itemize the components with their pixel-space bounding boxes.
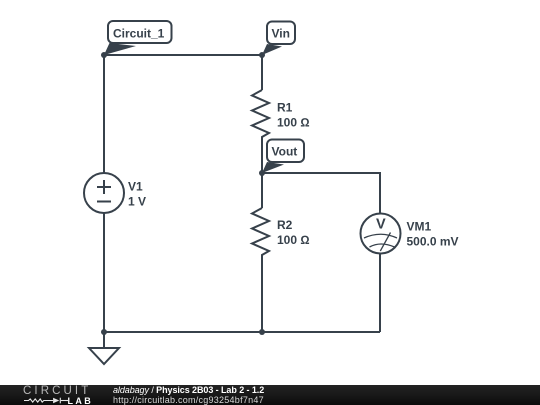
- svg-text:R2: R2: [277, 218, 293, 232]
- svg-text:R1: R1: [277, 101, 293, 115]
- svg-text:VM1: VM1: [407, 220, 432, 234]
- svg-text:1 V: 1 V: [128, 195, 146, 209]
- svg-text:Vout: Vout: [272, 145, 298, 159]
- svg-text:100 Ω: 100 Ω: [277, 233, 310, 247]
- svg-text:V: V: [376, 217, 386, 233]
- svg-text:500.0 mV: 500.0 mV: [407, 235, 459, 249]
- svg-text:Circuit_1: Circuit_1: [113, 27, 165, 41]
- svg-text:V1: V1: [128, 180, 143, 194]
- svg-text:100 Ω: 100 Ω: [277, 116, 310, 130]
- svg-text:Vin: Vin: [272, 27, 290, 41]
